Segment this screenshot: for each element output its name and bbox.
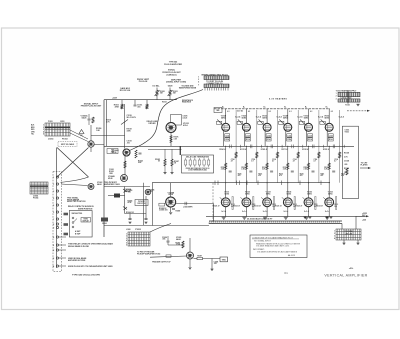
wire: plate lead top tube V1114 <box>225 113 227 123</box>
V1074 dark center <box>169 126 173 130</box>
svg-text:9+1.4: 9+1.4 <box>221 210 226 213</box>
svg-text:R1087: R1087 <box>174 161 179 163</box>
tube V1123 inner electrode <box>244 200 249 205</box>
svg-text:3: 3 <box>126 238 127 240</box>
V1084B cathode parts <box>169 207 180 214</box>
svg-text:B1060: B1060 <box>102 223 106 225</box>
bus crossing ticks stage 3 <box>271 145 282 149</box>
wire: screen mid vertical stage 1 <box>235 110 237 146</box>
resistor R1062 <box>124 161 126 168</box>
svg-text:R1121 27: R1121 27 <box>275 205 282 207</box>
svg-text:SELECTED POSITION: SELECTED POSITION <box>67 201 86 203</box>
grid box label left of V1144 <box>279 121 284 124</box>
diode arrow lower <box>123 207 127 211</box>
svg-text:DELAY LINE TERMINATION: DELAY LINE TERMINATION <box>186 156 210 159</box>
tube V1154 <box>305 123 313 131</box>
resistor R1097 horizontal <box>197 256 203 260</box>
svg-text:P1055: P1055 <box>135 229 142 231</box>
wire: cable from J1055 up <box>150 224 171 233</box>
terminal pin numbers <box>53 177 55 268</box>
potentiometer R1021 <box>168 85 178 100</box>
wire: -150V bus (mid) <box>104 145 354 147</box>
tube V1074 input CF <box>166 123 176 133</box>
lead component boxes <box>64 213 69 236</box>
svg-text:7: 7 <box>198 84 199 86</box>
svg-text:B+: B+ <box>284 107 286 109</box>
resistor R1053 <box>92 117 94 123</box>
svg-text:5: 5 <box>43 134 44 136</box>
ground under J1160 left <box>342 240 345 245</box>
wire: curve into terminal strip <box>61 177 89 183</box>
svg-text:+225: +225 <box>362 220 366 222</box>
resistor on screen line stage 1 <box>235 152 237 158</box>
value box2 under V1144 <box>287 138 292 141</box>
wire: plate lead top tube V1144 <box>287 113 289 123</box>
terminal strip dashed enclosure <box>53 172 62 272</box>
capacitor C1011 with label <box>134 100 143 109</box>
svg-text:1: 1 <box>334 230 335 232</box>
small box B1091 <box>214 108 222 113</box>
svg-text:T1161: T1161 <box>345 132 350 134</box>
thermal cutout delta symbol <box>79 130 84 134</box>
junction dots stage 2 <box>246 146 257 217</box>
value box1 under V1124 <box>245 134 250 137</box>
wire: V1053 plate lead <box>90 147 92 152</box>
svg-text:C1168: C1168 <box>344 160 349 162</box>
terminal leads <box>59 237 67 266</box>
wire: ground bus bottom <box>206 215 365 217</box>
svg-text:6.3: 6.3 <box>269 111 271 113</box>
grid box label left of V1154 <box>299 121 304 124</box>
svg-text:VERTICAL AMPLIFIER: VERTICAL AMPLIFIER <box>324 273 367 277</box>
wire: V1133 grid vertical <box>266 183 268 198</box>
svg-text:R1121 27: R1121 27 <box>296 205 303 207</box>
tube V1084B <box>166 197 176 207</box>
wire: column line mid stage 3 <box>266 146 268 182</box>
wire: cathode drop V1154 <box>306 131 308 146</box>
connector J1053 <box>45 123 70 136</box>
svg-text:AMPLIFIER SYSTEM: AMPLIFIER SYSTEM <box>68 259 86 262</box>
ground x212 <box>210 269 213 271</box>
tube V1124 <box>242 123 250 131</box>
svg-text:GAIN: GAIN <box>168 85 173 88</box>
wire: crossover pair A <box>57 148 89 178</box>
svg-text:VOLTAGE READINGS MAY VARY: VOLTAGE READINGS MAY VARY ±10% <box>256 245 290 248</box>
svg-text:WAVEFORMS TAKEN: WAVEFORMS TAKEN <box>179 87 197 90</box>
svg-text:220: 220 <box>150 191 153 193</box>
arrow into V1154 <box>300 120 305 125</box>
wire: pickoff branch <box>104 186 150 188</box>
tube V1134 <box>263 123 271 131</box>
wire: +350V dashed to right <box>347 110 367 112</box>
dark component box <box>114 194 120 198</box>
svg-text:6.3: 6.3 <box>331 111 333 113</box>
svg-text:R1021: R1021 <box>173 91 178 93</box>
capacitor mid stage 4 <box>291 171 294 172</box>
wire: V1133 cathode to gnd bus <box>266 207 268 217</box>
svg-text:YEL: YEL <box>31 134 34 136</box>
svg-text:C1088 .005: C1088 .005 <box>159 210 168 212</box>
svg-text:R1121 27: R1121 27 <box>233 205 240 207</box>
ground under J1151 <box>356 104 359 106</box>
svg-text:470K: 470K <box>115 105 120 108</box>
grid box label left of V1164 <box>320 121 325 124</box>
wire: delay line input drop <box>213 204 215 222</box>
svg-text:P1054: P1054 <box>33 196 38 199</box>
capacitor C1053 <box>88 114 91 125</box>
svg-text:+225 +350: +225 +350 <box>345 234 352 236</box>
wire: x152.5 drop <box>152 183 154 226</box>
capacitor C1095 <box>167 236 170 242</box>
dashed partition <box>212 183 214 224</box>
resistor on column line stage 5 <box>307 163 309 170</box>
wire: left vertical rail <box>103 100 105 237</box>
svg-text:6.3: 6.3 <box>227 111 229 113</box>
svg-text:(GAIN ADJ): (GAIN ADJ) <box>167 73 177 76</box>
resistor on column line stage 2 <box>245 163 247 170</box>
wire: plate lead top tube V1134 <box>266 113 268 123</box>
wire: cathode drop V1144 <box>285 131 287 146</box>
tube V1133 <box>263 198 272 207</box>
wire: V1074 plate to term box <box>180 146 182 155</box>
svg-text:PLUG-IN: PLUG-IN <box>139 81 148 83</box>
svg-text:AMPLIFIER V1063: AMPLIFIER V1063 <box>104 183 120 186</box>
ground stage 3 <box>263 217 267 219</box>
bus crossing ticks stage 1 <box>230 145 241 149</box>
wire: column line mid stage 1 <box>225 146 227 182</box>
svg-text:6AU6: 6AU6 <box>176 238 181 241</box>
tube V1163 inner electrode <box>327 200 332 205</box>
svg-text:5: 5 <box>126 242 127 244</box>
tube V1143 inner electrode <box>285 200 290 205</box>
resistor R1011 with label <box>114 100 123 109</box>
wire: J1053 leads to V1053 <box>70 130 88 142</box>
grid box label left of V1124 <box>237 121 242 124</box>
wire: V1123 grid vertical <box>245 183 247 198</box>
grid stopper ticks on +100V bus <box>215 181 321 186</box>
resistor on column line stage 3 <box>266 163 268 170</box>
wire: drop x212 <box>211 259 213 270</box>
svg-text:6DK6: 6DK6 <box>324 117 329 119</box>
value box2 under V1164 <box>328 138 333 141</box>
side box stage 2 <box>253 197 254 210</box>
svg-text:R1097: R1097 <box>197 256 202 258</box>
svg-text:6DK6: 6DK6 <box>266 193 271 195</box>
svg-text:L1060: L1060 <box>126 229 131 231</box>
interstage coupling stage 5 <box>318 147 320 183</box>
value box1 under V1154 <box>308 134 313 137</box>
svg-text:T1151: T1151 <box>345 104 350 106</box>
output terminal box <box>220 257 228 262</box>
wire: plate lead top tube V1154 <box>308 113 310 123</box>
svg-text:9+1.4: 9+1.4 <box>283 210 288 213</box>
value box2 under V1134 <box>266 138 271 141</box>
tube V1064A <box>123 149 130 156</box>
wire: coupling vertical <box>124 187 126 214</box>
arrow: +225V right <box>366 215 369 217</box>
ground under V1095 <box>188 259 191 269</box>
svg-text:R1063: R1063 <box>109 171 114 173</box>
svg-text:.001: .001 <box>127 142 130 144</box>
svg-text:6.3: 6.3 <box>310 111 312 113</box>
svg-text:DC BAL: DC BAL <box>153 85 161 88</box>
value box2 under V1114 <box>225 138 230 141</box>
svg-text:.005: .005 <box>162 239 165 241</box>
svg-text:R1089: R1089 <box>176 211 181 213</box>
svg-text:B SWP: B SWP <box>75 233 81 235</box>
wire: bottom bus left <box>104 225 209 227</box>
svg-text:6DK6: 6DK6 <box>328 193 333 195</box>
wire: column line mid stage 2 <box>245 146 247 182</box>
value box2 under V1124 <box>245 138 250 141</box>
wire: column line mid stage 4 <box>287 146 289 182</box>
V1063 dark center <box>90 185 93 188</box>
svg-text:TRIGGER OUTPUT CF: TRIGGER OUTPUT CF <box>152 262 172 264</box>
svg-text:1.8K: 1.8K <box>96 130 101 132</box>
svg-text:C1065: C1065 <box>128 190 133 192</box>
wire: x143.7 drop <box>143 183 145 225</box>
svg-text:TRIG: TRIG <box>222 259 227 261</box>
tube V1133 inner electrode <box>265 200 270 205</box>
stage 4 top heater drop <box>287 109 289 113</box>
svg-text:2: 2 <box>126 236 127 238</box>
svg-text:FROM PLUG-IN UNIT: FROM PLUG-IN UNIT <box>81 106 102 108</box>
resistor R1095 <box>182 241 184 248</box>
wire: left rail B <box>106 100 108 147</box>
stage 1 top heater drop <box>225 109 227 113</box>
svg-text:R1096: R1096 <box>175 243 180 245</box>
junction dots stage 6 <box>329 146 340 217</box>
svg-text:6DK6: 6DK6 <box>245 193 250 195</box>
ground stage 2 <box>242 217 246 219</box>
svg-text:6DK6: 6DK6 <box>283 117 288 119</box>
side box stage 5 <box>315 197 316 210</box>
resistor R1013 <box>146 100 148 109</box>
resistor on column line stage 6 <box>328 163 330 170</box>
tube V1163 <box>325 198 334 207</box>
variable cap arrow <box>121 120 128 125</box>
interstage coupling stage 2 <box>256 147 258 183</box>
svg-text:R1088 1K: R1088 1K <box>159 208 167 210</box>
wire: terminal strip bus <box>56 148 58 269</box>
V1053 dark center <box>90 143 93 146</box>
svg-text:R1020: R1020 <box>160 91 165 93</box>
wire: V1153 cathode to gnd bus <box>308 207 310 217</box>
compensation box above V1074 <box>171 114 182 125</box>
capacitor mid stage 3 <box>270 171 273 172</box>
V1084B dark center <box>169 200 173 204</box>
ground stage 4 <box>284 217 288 219</box>
svg-text:R1121 27: R1121 27 <box>254 205 261 207</box>
delay line upper conductor <box>209 220 342 222</box>
svg-text:6: 6 <box>126 245 127 247</box>
svg-text:6.3: 6.3 <box>289 111 291 113</box>
arrow into V1163 <box>323 197 326 200</box>
svg-text:.001: .001 <box>137 106 141 108</box>
svg-text:R1091 680 R1092 680 C1091: R1091 680 R1092 680 C1091 8-50 <box>186 168 210 170</box>
wire: screen mid vertical stage 6 <box>339 110 341 146</box>
wire: screen mid vertical stage 4 <box>297 110 299 146</box>
capacitor mid stage 1 <box>229 171 232 172</box>
wire: V1163 cathode to gnd bus <box>328 207 330 217</box>
wire: screen mid vertical stage 5 <box>318 110 320 146</box>
svg-text:R1021: R1021 <box>162 102 167 104</box>
stage 2 top heater drop <box>245 109 247 113</box>
junction dots stage 1 <box>225 146 236 217</box>
svg-text:13: 13 <box>53 258 55 260</box>
wire: V1143 cathode to gnd bus <box>287 207 289 217</box>
svg-text:C1: C1 <box>284 271 288 275</box>
wire: V1084B grid up <box>170 183 172 197</box>
wire: cascode link <box>124 156 126 175</box>
value box1 under V1134 <box>266 134 271 137</box>
component box on grid line <box>166 255 171 257</box>
wire: V1084B plate to delay line <box>176 203 214 205</box>
connector J11 pin leads <box>205 88 228 91</box>
boxed label left of V1084B <box>159 203 165 206</box>
interstage coupling stage 6 <box>339 147 341 183</box>
parts right of V1064A <box>135 150 143 164</box>
tube V1153 inner electrode <box>306 200 311 205</box>
svg-text:+5%: +5% <box>349 268 353 270</box>
svg-text:B+: B+ <box>305 107 307 109</box>
svg-text:DRIVER: DRIVER <box>149 123 157 125</box>
arrow: to CRT plates <box>360 163 371 170</box>
wire: column line mid stage 5 <box>308 146 310 182</box>
bus crossing ticks stage 2 <box>250 145 261 149</box>
V1064B dark center <box>123 177 126 180</box>
svg-text:1: 1 <box>336 93 337 95</box>
potentiometer R1020 <box>153 85 165 100</box>
wire: V1095 output <box>194 258 198 260</box>
svg-text:1: 1 <box>126 234 127 236</box>
resistor on screen line stage 5 <box>318 152 320 158</box>
svg-text:J1053: J1053 <box>48 139 53 141</box>
svg-text:6.3V HEATERS: 6.3V HEATERS <box>269 98 287 101</box>
bus crossing ticks stage 6 <box>333 145 344 149</box>
tube V1113 inner electrode <box>223 200 228 205</box>
svg-text:+225V: +225V <box>112 97 118 99</box>
ground stage 6 <box>325 217 329 219</box>
terminal contacts column <box>56 176 58 267</box>
svg-text:12: 12 <box>53 250 55 252</box>
svg-text:READINGS: READINGS <box>182 101 192 104</box>
connector J1055 bottom <box>128 232 150 246</box>
wire: plate lead top tube V1124 <box>245 113 247 123</box>
svg-text:C1063: C1063 <box>109 169 114 171</box>
svg-text:.005: .005 <box>128 192 131 194</box>
wire: V1163 grid vertical <box>328 183 330 198</box>
svg-text:3: 3 <box>334 236 335 238</box>
resistor R1076 <box>170 136 172 143</box>
svg-text:SINGLE BEAM IS IN USE: SINGLE BEAM IS IN USE <box>68 245 90 248</box>
wire: crossover pair B <box>57 148 89 178</box>
wire: V1123 cathode to gnd bus <box>245 207 247 217</box>
wire: V1143 grid vertical <box>287 183 289 198</box>
svg-text:9+1.4: 9+1.4 <box>325 210 330 213</box>
bus crossing ticks stage 4 <box>292 145 303 149</box>
output loop frame <box>342 126 358 198</box>
svg-text:B+: B+ <box>222 107 224 109</box>
svg-text:6DK6: 6DK6 <box>307 193 312 195</box>
connector J1151 <box>336 89 360 102</box>
wire: heater supply line <box>214 108 330 110</box>
svg-text:6.3: 6.3 <box>248 111 250 113</box>
resistor on screen line stage 6 <box>339 152 341 158</box>
value box1 under V1164 <box>328 134 333 137</box>
grounds along bottom bus <box>304 217 333 218</box>
tube V1153 <box>304 198 313 207</box>
tube V1064B <box>121 175 128 182</box>
svg-text:R1076: R1076 <box>174 137 179 139</box>
delay line lower conductor <box>209 223 342 225</box>
wire: cathode drop V1134 <box>264 131 266 146</box>
wire: link below -150 bus <box>148 148 182 150</box>
boxed label SIG AMP <box>107 149 118 154</box>
connector J1054 heavy contact row <box>30 185 48 187</box>
svg-text:SW1060 TRIG: SW1060 TRIG <box>72 213 83 215</box>
svg-text:PICKOFF AMPLIFIER V1063: PICKOFF AMPLIFIER V1063 <box>137 253 160 256</box>
svg-text:T1151 HEATER SUPPLY: T1151 HEATER SUPPLY <box>336 89 357 92</box>
wire: grid lead V1095 <box>150 256 187 257</box>
wire: cathode drop V1124 <box>243 131 245 146</box>
tube V1144 <box>284 123 292 131</box>
svg-text:SIG COUPL: SIG COUPL <box>127 117 136 119</box>
termination cap 1 <box>128 214 131 224</box>
svg-text:R1086: R1086 <box>150 190 155 192</box>
relay box K1060 dark <box>101 218 108 226</box>
delay line winding hatch <box>209 221 340 224</box>
interstage coupling stage 4 <box>297 147 299 183</box>
resistor network left of box <box>155 149 179 174</box>
tube V1053A <box>88 141 94 147</box>
svg-text:6CL6: 6CL6 <box>183 125 188 127</box>
svg-text:R1085: R1085 <box>155 159 160 161</box>
ground under J1160 right <box>356 240 359 245</box>
arrow into V1164 <box>321 120 326 125</box>
tube V1143 <box>283 198 292 207</box>
tube V1095 trigger CF <box>187 252 194 259</box>
svg-text:6DK6: 6DK6 <box>304 117 309 119</box>
svg-text:.005: .005 <box>344 164 347 166</box>
notes box text <box>252 236 301 257</box>
termination cap 2 <box>144 196 147 224</box>
arrow into V1114 <box>217 120 222 125</box>
capacitor mid stage 5 <box>312 171 315 172</box>
svg-text:(SIGNAL INPUT CONN): (SIGNAL INPUT CONN) <box>166 81 186 84</box>
wire: x356 drop to J1160 <box>355 216 357 229</box>
svg-text:R1121 27: R1121 27 <box>316 205 323 207</box>
tube V1164 <box>325 123 333 131</box>
grid box label left of V1134 <box>258 121 263 124</box>
grid box label left of V1114 <box>216 121 221 124</box>
wire: V1153 grid vertical <box>308 183 310 198</box>
V1064A dark center <box>125 151 128 154</box>
tube V1113 <box>221 198 230 207</box>
wire: shielded input cable from J11 <box>130 90 204 151</box>
svg-text:6DK6: 6DK6 <box>287 193 292 195</box>
svg-text:R1065: R1065 <box>128 201 133 203</box>
arrow into V1113 <box>220 197 223 200</box>
wire: +100V bus <box>152 182 330 184</box>
svg-text:.005: .005 <box>214 263 217 265</box>
svg-text:9+1.4: 9+1.4 <box>304 210 309 213</box>
resistor on screen line stage 4 <box>297 152 299 158</box>
svg-text:C1161: C1161 <box>345 130 350 132</box>
bus crossing ticks stage 5 <box>313 145 324 149</box>
connector J1160 <box>336 229 361 240</box>
switch assembly box SW1060 <box>69 211 92 238</box>
